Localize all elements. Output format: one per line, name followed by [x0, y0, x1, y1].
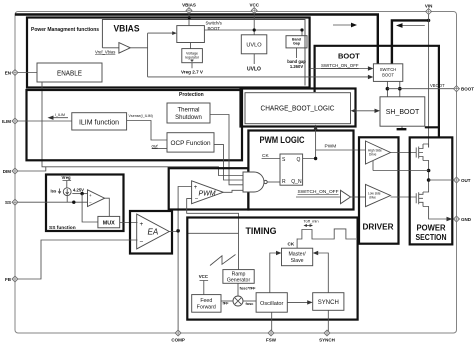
box Ramp Generator — [223, 270, 254, 284]
svg-text:CK: CK — [262, 153, 269, 159]
wire SWITCH_ON_OFF to switch boot with arrows — [148, 69, 370, 77]
svg-text:ILIM: ILIM — [2, 119, 11, 124]
svg-text:CHARGE_BOOT_LOGIC: CHARGE_BOOT_LOGIC — [261, 104, 335, 113]
wire switch boot outputs to SH_BOOT — [387, 81, 399, 96]
svg-text:DIM: DIM — [3, 169, 12, 174]
wire switching node — [423, 161, 429, 193]
block VBIAS inner box — [102, 20, 305, 86]
svg-text:SS: SS — [5, 200, 11, 205]
wire VIN thick branch to SWITCH BOOT — [392, 20, 429, 63]
wire ramp to PWM inverting input — [187, 199, 239, 270]
wire voltage regulator output — [191, 63, 193, 69]
wire PWM signal to driver — [316, 149, 366, 151]
svg-text:COMP: COMP — [171, 338, 185, 343]
svg-text:Feed: Feed — [200, 298, 212, 304]
pin SYNCH — [319, 330, 335, 343]
svg-text:SWITCH_ON_OFF: SWITCH_ON_OFF — [298, 189, 339, 195]
svg-text:fFF: fFF — [223, 301, 230, 305]
block PWM LOGIC — [248, 131, 353, 210]
node bandgap junction — [300, 28, 303, 31]
svg-text:FSW: FSW — [266, 338, 277, 343]
wire thermal shutdown to NAND — [210, 115, 244, 185]
node boot node 2 — [398, 87, 402, 91]
svg-text:SYNCH: SYNCH — [319, 338, 335, 343]
svg-text:fosc*fFF: fosc*fFF — [240, 286, 257, 291]
wire ref to MUX — [82, 194, 98, 222]
transistor high side FET — [416, 144, 429, 161]
svg-text:BOOT: BOOT — [461, 87, 474, 92]
svg-text:UVLO: UVLO — [246, 43, 262, 49]
wire feed forward to multiplier — [221, 300, 233, 302]
block DRIVER — [359, 137, 399, 243]
wire buffer output to switch box with arrow — [130, 33, 172, 77]
svg-text:SECTION: SECTION — [416, 233, 447, 242]
buffer SWITCH_ON_OFF — [341, 190, 351, 203]
pin SS — [5, 199, 18, 205]
svg-text:VCC: VCC — [249, 3, 259, 8]
node SW upper — [427, 169, 431, 173]
wire synch to master slave — [317, 253, 329, 293]
svg-text:Slave: Slave — [291, 258, 304, 264]
svg-text:Vreg: Vreg — [62, 175, 72, 180]
arrow I_ILIM annotation — [48, 113, 69, 120]
pin VCC stub to UVLO — [253, 11, 255, 35]
svg-text:VIN: VIN — [425, 4, 433, 9]
svg-text:Gap: Gap — [293, 42, 301, 46]
wire VIN vertical to power section — [428, 12, 430, 148]
svg-text:POWER: POWER — [417, 224, 446, 233]
svg-text:EN: EN — [5, 70, 11, 75]
svg-text:VBIAS: VBIAS — [114, 24, 140, 35]
block SS function — [46, 175, 124, 232]
svg-text:OCP Function: OCP Function — [170, 140, 210, 147]
multiplier — [233, 296, 243, 306]
svg-text:SWITCH_ON_OFF: SWITCH_ON_OFF — [321, 63, 359, 68]
svg-text:PWM: PWM — [325, 144, 337, 150]
node VIN tap — [427, 19, 430, 22]
sawtooth ramp symbol — [210, 255, 236, 266]
box MUX — [98, 216, 120, 227]
block POWER SECTION — [410, 137, 453, 244]
svg-text:MUX: MUX — [103, 221, 115, 227]
block Protection — [27, 90, 243, 160]
wire VBOOT to BOOT pin — [387, 88, 456, 90]
svg-text:R: R — [282, 179, 286, 185]
svg-text:Shutdown: Shutdown — [175, 115, 202, 121]
pin COMP — [171, 330, 185, 343]
buffer Vref_Vbias — [119, 43, 130, 54]
svg-text:TIMING: TIMING — [246, 226, 277, 236]
wire band gap output down — [296, 48, 298, 58]
pin GND — [454, 216, 472, 222]
svg-text:−: − — [195, 197, 199, 203]
svg-text:Forward: Forward — [197, 304, 216, 310]
wire CK stub — [262, 158, 280, 160]
svg-text:Drive: Drive — [369, 152, 377, 156]
pin OUT — [454, 177, 471, 183]
wire high FET drain to VIN — [423, 144, 429, 148]
wire switch box to voltage regulator — [190, 43, 192, 49]
svg-text:+: + — [89, 193, 92, 198]
svg-text:CK: CK — [288, 242, 295, 247]
wire SW to OUT pin — [429, 179, 457, 181]
waveform Toff_min pulses — [297, 229, 356, 239]
box Oscillator — [256, 293, 287, 313]
box SWITCH BOOT — [373, 64, 402, 82]
wire comparator out to MUX — [105, 198, 110, 216]
box Feed Forward — [192, 295, 221, 313]
wire FB pin to EA inverting input — [15, 240, 138, 279]
svg-text:drive: drive — [369, 195, 376, 199]
wire ENABLE output down and right to NAND — [42, 82, 244, 176]
transistor low side FET — [416, 192, 423, 207]
wire OCP to NAND — [214, 145, 244, 180]
wire VBIAS box to buffer input — [102, 47, 119, 49]
svg-text:+: + — [140, 221, 144, 228]
driver high side — [366, 141, 391, 164]
wire ILIM pin to ILIM function — [15, 120, 72, 122]
svg-text:BOOT: BOOT — [338, 52, 360, 61]
comparator SS — [88, 190, 105, 207]
block PWM comparator frame — [169, 168, 249, 209]
svg-text:Protection: Protection — [179, 92, 204, 98]
svg-text:Iss: Iss — [51, 189, 57, 194]
wire high driver to high fet gate — [391, 152, 417, 154]
arrow VIN current flow annotation — [396, 23, 425, 28]
wire Q output to charge boot logic with arrow — [303, 128, 316, 159]
wire PWM comparator output to NAND — [223, 190, 243, 192]
box voltage regulator — [182, 49, 203, 63]
svg-text:UVLO: UVLO — [247, 67, 261, 73]
pin DIM — [3, 168, 18, 174]
svg-text:out: out — [152, 144, 159, 149]
svg-text:Q_N: Q_N — [291, 179, 302, 185]
block TIMING — [187, 218, 357, 320]
pin BOOT — [454, 86, 474, 92]
svg-text:fosc: fosc — [246, 302, 254, 306]
svg-text:ENABLE: ENABLE — [57, 69, 82, 78]
current source Iss — [63, 188, 71, 196]
wire oscillator to synch — [287, 301, 308, 303]
svg-text:SYNCH: SYNCH — [318, 300, 339, 306]
box SYNCH — [313, 293, 344, 311]
svg-text:Vsense(I_ILIM): Vsense(I_ILIM) — [129, 114, 153, 118]
wire 4.25V reference — [72, 193, 87, 195]
block Power Management functions — [27, 18, 310, 88]
node SW out — [427, 178, 431, 182]
svg-text:regulator: regulator — [185, 55, 200, 59]
wire charge boot logic to SH_BOOT double arrow — [354, 110, 377, 112]
svg-text:Thermal: Thermal — [177, 108, 199, 114]
gate NAND — [243, 172, 264, 192]
svg-text:Switch/s: Switch/s — [206, 21, 223, 26]
box UVLO — [241, 35, 266, 54]
svg-text:I_ILIM: I_ILIM — [55, 113, 65, 117]
box Master Slave — [282, 248, 313, 266]
svg-text:OUT: OUT — [461, 178, 471, 183]
flip-flop SR latch — [280, 154, 303, 185]
svg-text:Generator: Generator — [227, 278, 251, 284]
wire multiplier to oscillator — [243, 300, 256, 302]
pin VBIAS — [182, 3, 196, 14]
wire VBIAS/VCC supply bus — [15, 15, 378, 64]
node Q junction — [314, 157, 317, 160]
svg-text:−: − — [140, 239, 144, 246]
wire SS pin to comparator — [15, 201, 88, 203]
svg-text:GND: GND — [461, 217, 472, 222]
comparator PWM — [192, 181, 224, 204]
svg-text:Q: Q — [297, 157, 301, 163]
svg-text:PWM: PWM — [199, 191, 216, 198]
node ref junction — [80, 192, 83, 195]
svg-text:SH_BOOT: SH_BOOT — [386, 109, 420, 116]
svg-text:1.260V: 1.260V — [290, 64, 303, 69]
block ENABLE — [37, 63, 102, 82]
svg-text:−: − — [89, 200, 92, 205]
box Thermal Shutdown — [167, 103, 210, 123]
box switch/s BOOT selector — [177, 26, 205, 43]
pin FSW — [266, 330, 277, 343]
block EA error amplifier — [130, 211, 172, 254]
wire current source to SS line — [66, 196, 68, 203]
wire SWITCH_ON_OFF to buffer — [296, 196, 341, 198]
svg-text:VBOOT: VBOOT — [430, 83, 445, 88]
wire DIM pin joining EN wire — [15, 167, 46, 171]
svg-text:SWITCH: SWITCH — [380, 67, 397, 72]
wire oscillator to FSW pin — [271, 312, 273, 333]
wire low driver to low fet gate — [391, 196, 417, 198]
wire low FET source to GND pin — [423, 207, 448, 220]
svg-text:Master/: Master/ — [288, 252, 306, 258]
ground SH_BOOT — [401, 126, 403, 128]
svg-text:BOOT: BOOT — [382, 73, 394, 78]
pin VCC — [249, 3, 259, 14]
svg-text:VBIAS: VBIAS — [182, 3, 196, 8]
wire multiplier to ramp generator — [237, 283, 239, 296]
block BOOT — [315, 46, 439, 138]
svg-text:FB: FB — [5, 277, 12, 282]
wire EA output to COMP pin — [169, 231, 178, 334]
wire EN pin to ENABLE — [15, 72, 37, 74]
svg-text:+: + — [194, 185, 198, 191]
wire SW to driver bootstrap — [373, 161, 429, 171]
wire UVLO output down to charge boot logic — [253, 54, 255, 64]
pin EN — [5, 70, 18, 76]
node EA output — [176, 229, 180, 233]
wire synch box to SYNCH pin — [327, 310, 329, 333]
pin VBIAS stub — [188, 11, 190, 26]
node VCC-UVLO junction — [253, 28, 256, 31]
wire switch box to UVLO and band gap — [204, 30, 302, 36]
svg-text:Power Managment functions: Power Managment functions — [31, 27, 99, 33]
svg-text:SS function: SS function — [49, 225, 76, 231]
svg-text:ILIM function: ILIM function — [79, 120, 119, 127]
wire master slave CK up — [296, 239, 298, 249]
block charge boot logic thick frame — [241, 89, 356, 127]
wire oscillator to master slave — [270, 253, 278, 293]
wire MUX to EA — [120, 222, 138, 224]
svg-text:Vref_Vbias: Vref_Vbias — [95, 50, 115, 55]
pin VIN — [425, 4, 433, 15]
svg-text:VCC: VCC — [199, 274, 209, 279]
svg-text:EA: EA — [148, 228, 159, 237]
pin ILIM — [2, 118, 18, 124]
svg-text:Toff_min: Toff_min — [304, 219, 319, 224]
wire EA out up to PWM comparator — [178, 187, 192, 231]
svg-text:Vreg 2.7 V: Vreg 2.7 V — [181, 70, 204, 75]
driver low side — [366, 184, 391, 206]
pin FB — [5, 276, 18, 282]
arrow bus current flow annotation — [333, 23, 357, 28]
box band gap — [286, 36, 307, 48]
box CHARGE_BOOT_LOGIC — [245, 93, 351, 124]
svg-text:4.25V: 4.25V — [73, 187, 84, 192]
box ILIM function — [72, 113, 127, 130]
box OCP Function — [167, 133, 214, 152]
svg-text:Oscillator: Oscillator — [260, 301, 283, 307]
wire OCP out stub — [152, 148, 167, 150]
node VBIAS junction — [188, 16, 191, 19]
node boot node 1 — [386, 87, 390, 91]
svg-text:DRIVER: DRIVER — [363, 223, 394, 232]
svg-text:PWM LOGIC: PWM LOGIC — [260, 135, 306, 145]
box SH_BOOT — [380, 97, 425, 126]
svg-text:BOOT: BOOT — [208, 26, 221, 31]
node SS junction — [72, 201, 75, 204]
wire NAND to flip-flop R — [267, 181, 280, 183]
wire buffer to low side driver — [351, 196, 366, 198]
wire ILIM function to OCP — [127, 121, 167, 141]
